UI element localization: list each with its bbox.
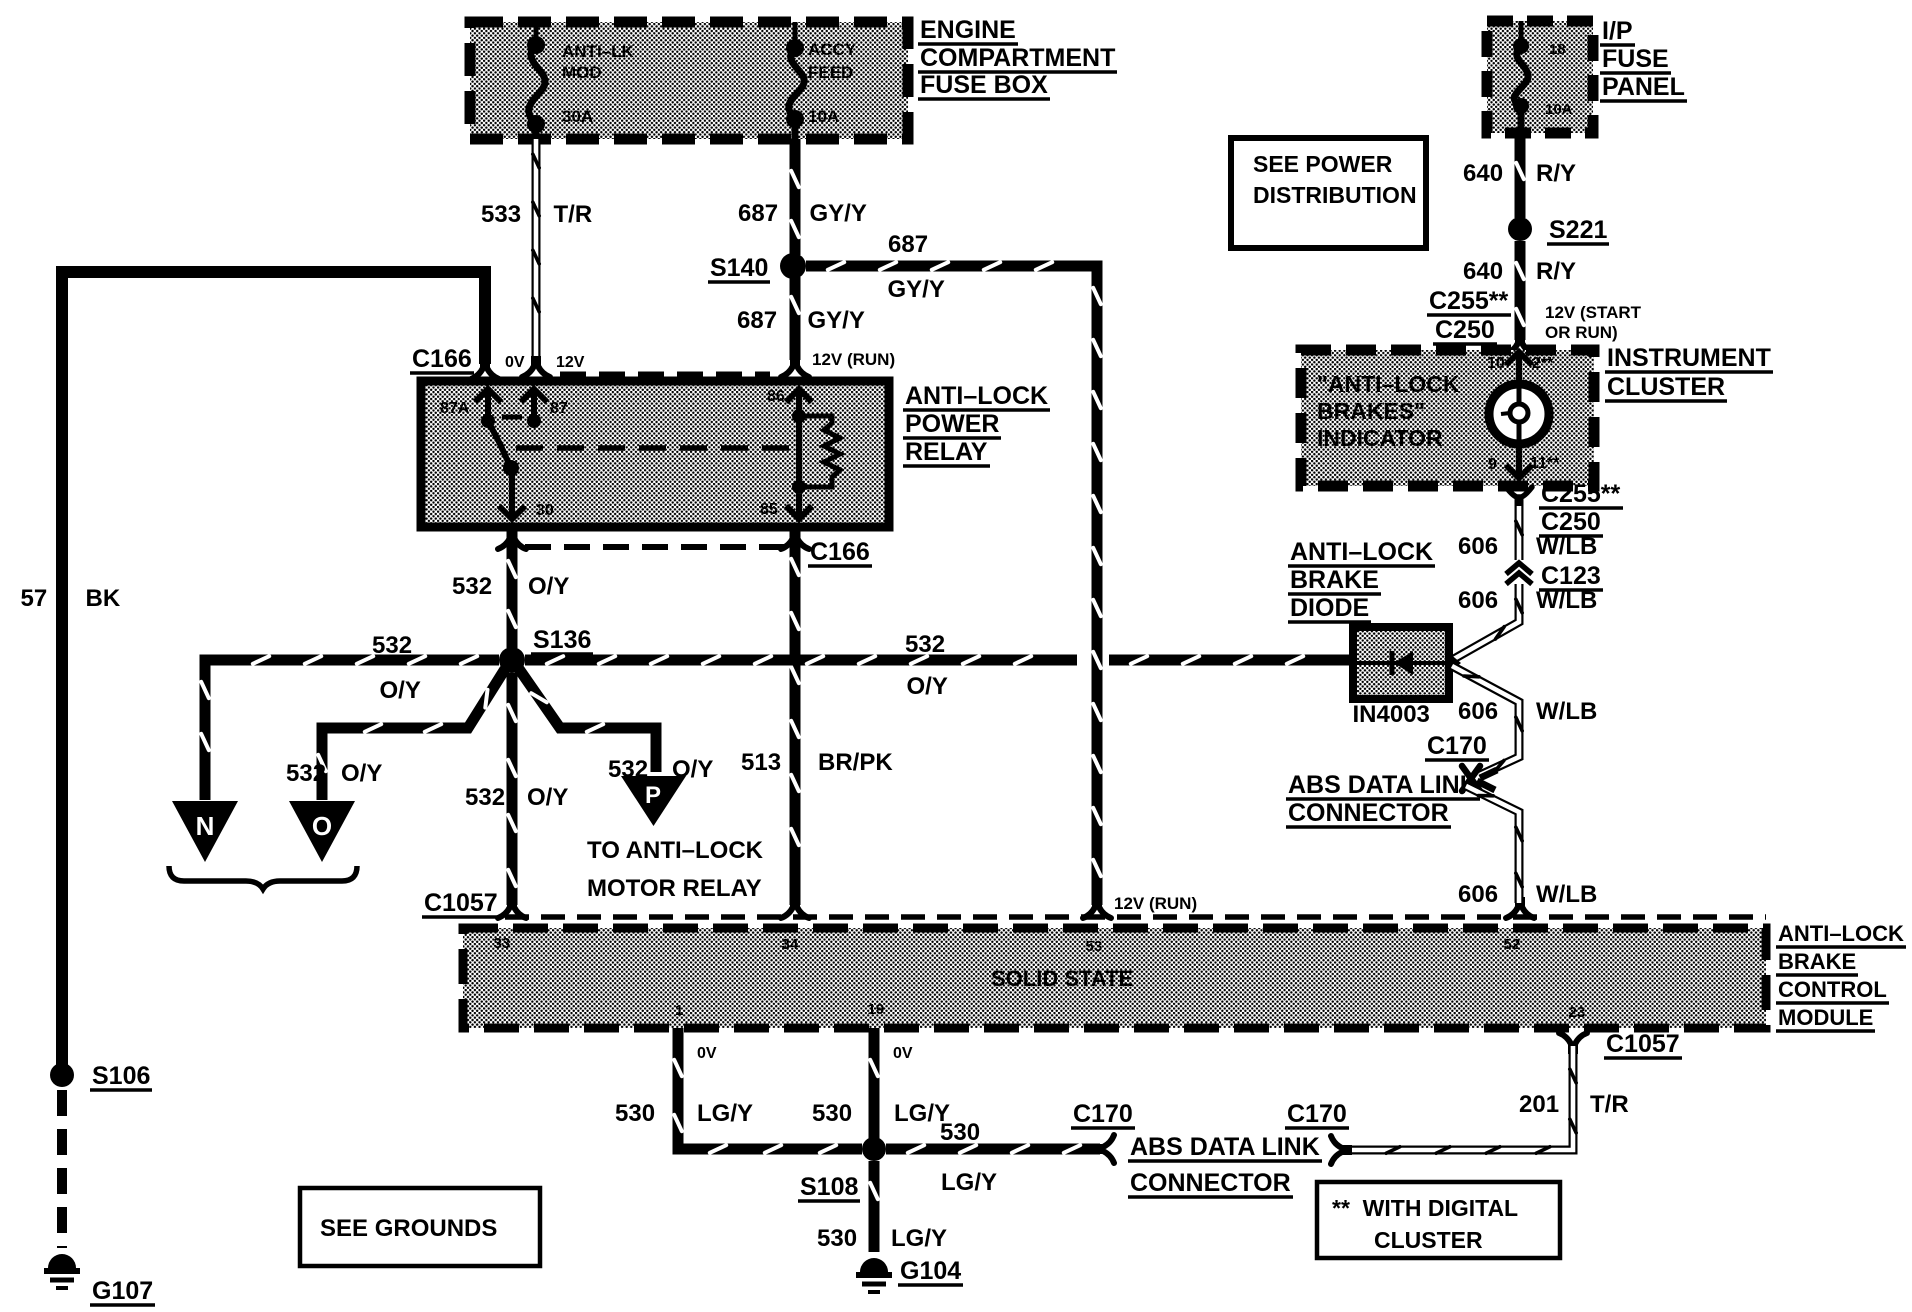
label C250 above cluster <box>1433 316 1497 344</box>
label C170 (data link) <box>1425 732 1489 760</box>
svg-text:606: 606 <box>1458 587 1498 614</box>
cluster label 9 <box>1488 456 1497 473</box>
connector C170 (201 wire end) <box>1331 1136 1349 1164</box>
fuse ANTI-LK MOD 30A <box>527 22 545 139</box>
svg-text:S106: S106 <box>92 1062 150 1090</box>
wire 606 W/LB (cluster to C123) <box>1516 506 1522 560</box>
svg-text:CONNECTOR: CONNECTOR <box>1130 1169 1291 1197</box>
cluster label 2** <box>1532 355 1554 372</box>
svg-text:12V (START: 12V (START <box>1545 303 1642 322</box>
svg-text:52: 52 <box>1504 936 1521 953</box>
connector C166 pin 30 <box>498 531 526 549</box>
svg-text:ANTI–LK: ANTI–LK <box>562 42 635 61</box>
svg-text:10: 10 <box>1487 355 1505 372</box>
wire 513 BR/PK <box>791 527 799 905</box>
title I/P <box>1600 17 1635 45</box>
cluster pin 9/11** arrow <box>1506 443 1532 478</box>
label C166 bottom <box>808 538 872 566</box>
svg-text:LG/Y: LG/Y <box>697 1100 753 1127</box>
label 201 <box>1519 1091 1559 1118</box>
connector C255**/C250 below cluster <box>1506 487 1532 506</box>
relay NC dash <box>502 415 522 420</box>
title PANEL <box>1600 73 1687 101</box>
svg-text:606: 606 <box>1458 533 1498 560</box>
label C170 (S108) <box>1071 1100 1135 1128</box>
svg-text:PANEL: PANEL <box>1602 73 1685 101</box>
title BRAKE (module) <box>1776 949 1858 975</box>
title COMPARTMENT <box>918 44 1117 72</box>
svg-text:MODULE: MODULE <box>1778 1005 1873 1030</box>
wire 201 T/R <box>1345 1046 1576 1153</box>
svg-text:86: 86 <box>767 388 785 405</box>
svg-text:S221: S221 <box>1549 216 1607 244</box>
svg-text:687: 687 <box>738 200 778 227</box>
svg-text:CONNECTOR: CONNECTOR <box>1288 799 1449 827</box>
title FUSE BOX <box>918 71 1050 99</box>
cluster label 11** <box>1530 455 1560 472</box>
label 687 branch <box>888 231 928 258</box>
svg-text:O/Y: O/Y <box>527 784 568 811</box>
label 530 (pin1) <box>615 1100 655 1127</box>
svg-text:687: 687 <box>888 231 928 258</box>
label ANTI-LK <box>562 42 635 61</box>
label 10A <box>808 107 839 126</box>
svg-text:10A: 10A <box>1545 101 1573 118</box>
wire 606 W/LB (C170 to module pin 52) <box>1466 786 1522 903</box>
svg-text:LG/Y: LG/Y <box>941 1169 997 1196</box>
svg-text:R/Y: R/Y <box>1536 160 1576 187</box>
label W/LB #1 <box>1536 533 1597 560</box>
svg-text:2**: 2** <box>1532 355 1554 372</box>
svg-text:G104: G104 <box>900 1257 961 1285</box>
splice S108 <box>862 1137 886 1161</box>
ground G107 <box>44 1254 80 1288</box>
label T/R <box>554 201 593 228</box>
diode symbol <box>1353 651 1461 675</box>
title ANTI-LOCK (diode) <box>1288 538 1435 566</box>
label 0V (pin1) <box>697 1045 717 1062</box>
wire S106 to G107 (dashed) <box>57 1090 67 1248</box>
connector C166 pin 12V(RUN) <box>781 359 809 377</box>
svg-text:C170: C170 <box>1427 732 1487 760</box>
connector C166 pin 85 <box>781 531 809 549</box>
connector C1057 pin 34 <box>781 900 809 918</box>
svg-text:P: P <box>645 782 661 809</box>
label S140 <box>708 254 770 282</box>
with digital cluster note box <box>1317 1182 1560 1258</box>
svg-text:O/Y: O/Y <box>380 677 421 704</box>
svg-text:CLUSTER: CLUSTER <box>1607 373 1725 401</box>
wire 530 LG/Y (S108 to G104) <box>870 1161 878 1252</box>
svg-text:CLUSTER: CLUSTER <box>1374 1227 1483 1253</box>
connector C170 (S108 wire end) <box>1096 1135 1114 1163</box>
arrow N <box>172 801 238 862</box>
svg-text:TO ANTI–LOCK: TO ANTI–LOCK <box>587 837 764 864</box>
wire 532 O/Y (S136 right) <box>525 656 1077 664</box>
svg-text:G107: G107 <box>92 1277 153 1305</box>
label 530 (ground) <box>817 1225 857 1252</box>
fuse 18 10A <box>1513 21 1529 133</box>
svg-text:C1057: C1057 <box>424 889 498 917</box>
svg-text:I/P: I/P <box>1602 17 1633 45</box>
svg-text:1: 1 <box>675 1002 683 1019</box>
label C1057 left <box>422 889 500 917</box>
wire 532 O/Y (S136 down) <box>508 673 516 905</box>
svg-text:C170: C170 <box>1287 1100 1347 1128</box>
svg-text:DISTRIBUTION: DISTRIBUTION <box>1253 182 1417 208</box>
module pin 33 <box>494 935 511 952</box>
label W/LB #2 <box>1536 587 1597 614</box>
svg-text:ANTI–LOCK: ANTI–LOCK <box>1778 921 1904 946</box>
label O/Y (left) <box>380 677 421 704</box>
svg-text:12V: 12V <box>556 354 585 371</box>
svg-text:INDICATOR: INDICATOR <box>1317 425 1443 451</box>
svg-text:ACCY: ACCY <box>808 40 857 59</box>
svg-text:COMPARTMENT: COMPARTMENT <box>920 44 1115 72</box>
label BK <box>86 585 121 612</box>
svg-text:0V: 0V <box>893 1045 913 1062</box>
label LG/Y (pin19) <box>894 1100 950 1127</box>
svg-text:W/LB: W/LB <box>1536 533 1597 560</box>
connector C123 <box>1506 563 1532 584</box>
label S221 <box>1547 216 1609 244</box>
label S106 <box>90 1062 152 1090</box>
label GY/Y upper <box>810 200 867 227</box>
label C1057 right <box>1604 1030 1682 1058</box>
svg-text:GY/Y: GY/Y <box>808 307 865 334</box>
svg-text:C170: C170 <box>1073 1100 1133 1128</box>
arrow P <box>621 776 686 826</box>
label 530 (S108 right) <box>940 1119 980 1146</box>
wire 687 GY/Y (S140 to relay) <box>791 277 799 360</box>
label 30A <box>562 107 593 126</box>
svg-text:30A: 30A <box>562 107 593 126</box>
svg-text:S136: S136 <box>533 626 591 654</box>
relay pin 87 arrow <box>521 389 547 421</box>
label 532 (relay-S136) <box>452 573 492 600</box>
svg-text:C123: C123 <box>1541 562 1601 590</box>
svg-text:BK: BK <box>86 585 121 612</box>
wire 530 LG/Y (pin 1) <box>674 1028 862 1153</box>
wire 606 W/LB (C123 to diode) <box>1452 584 1522 660</box>
svg-text:GY/Y: GY/Y <box>888 276 945 303</box>
svg-text:MOTOR RELAY: MOTOR RELAY <box>587 875 762 902</box>
module pin 53 <box>1086 938 1103 955</box>
svg-text:532: 532 <box>465 784 505 811</box>
svg-text:O/Y: O/Y <box>907 673 948 700</box>
svg-text:POWER: POWER <box>905 410 999 438</box>
label G104 <box>898 1257 963 1285</box>
splice S136 <box>499 647 525 673</box>
svg-text:87A: 87A <box>440 400 470 417</box>
svg-text:530: 530 <box>812 1100 852 1127</box>
svg-text:BRAKES": BRAKES" <box>1317 398 1425 424</box>
module pin 1 <box>675 1002 683 1019</box>
connector C255/C250 (above cluster) <box>1506 336 1534 354</box>
svg-text:ENGINE: ENGINE <box>920 16 1016 44</box>
label R/Y upper <box>1536 160 1576 187</box>
label R/Y lower <box>1536 258 1576 285</box>
relay contact dots <box>481 414 495 428</box>
wire 640 R/Y (fuse panel to S221) <box>1516 133 1524 218</box>
svg-text:W/LB: W/LB <box>1536 881 1597 908</box>
splice S140 <box>780 253 806 279</box>
label FEED <box>808 63 853 82</box>
svg-text:57: 57 <box>21 585 48 612</box>
wire 687 GY/Y (fuse to S140) <box>791 139 799 255</box>
svg-text:W/LB: W/LB <box>1536 698 1597 725</box>
label ANTI-LOCK (cluster) <box>1317 371 1460 397</box>
label DISTRIBUTION <box>1253 182 1417 208</box>
wire 532 O/Y (S136 to P) <box>519 669 656 772</box>
cluster pin 10/2** arrow <box>1506 352 1532 385</box>
svg-text:687: 687 <box>737 307 777 334</box>
relay coil <box>792 409 840 494</box>
label O/Y (relay-S136) <box>528 573 569 600</box>
connector C170 (data link) <box>1462 766 1497 791</box>
svg-text:INSTRUMENT: INSTRUMENT <box>1607 344 1771 372</box>
relay label 87A <box>440 400 470 417</box>
svg-text:ABS DATA LINK: ABS DATA LINK <box>1288 771 1478 799</box>
svg-text:IN4003: IN4003 <box>1353 701 1430 728</box>
label 0V <box>505 354 525 371</box>
label 12V (RUN) module <box>1114 894 1197 913</box>
connector line C166 (bottom, dashed) <box>525 544 790 550</box>
label CONNECTOR (bottom) <box>1128 1169 1293 1197</box>
splice S106 <box>50 1063 74 1087</box>
svg-text:53: 53 <box>1086 938 1103 955</box>
svg-text:533: 533 <box>481 201 521 228</box>
splice S221 <box>1508 217 1532 241</box>
wire 532 O/Y (right cont.) <box>1109 656 1353 664</box>
title POWER (relay) <box>903 410 1001 438</box>
label T/R (201) <box>1590 1091 1629 1118</box>
svg-text:SOLID STATE: SOLID STATE <box>991 966 1133 991</box>
label MOTOR RELAY <box>587 875 762 902</box>
label 606 #1 <box>1458 533 1498 560</box>
svg-text:O: O <box>312 811 332 841</box>
svg-text:** WITH DIGITAL: ** WITH DIGITAL <box>1332 1195 1518 1221</box>
label GY/Y lower <box>808 307 865 334</box>
title BRAKE (diode) <box>1288 566 1381 594</box>
connector C1057 pin 52 <box>1506 900 1534 918</box>
svg-text:ANTI–LOCK: ANTI–LOCK <box>1290 538 1433 566</box>
wire 530 LG/Y (S108 to C170) <box>886 1145 1100 1153</box>
label ACCY <box>808 40 857 59</box>
svg-text:FUSE BOX: FUSE BOX <box>920 71 1048 99</box>
svg-text:C1057: C1057 <box>1606 1030 1680 1058</box>
label ** WITH DIGITAL <box>1332 1195 1518 1221</box>
label 606 #2 <box>1458 587 1498 614</box>
label OR RUN <box>1545 323 1618 342</box>
label 532 (left) <box>372 632 412 659</box>
label LG/Y (ground) <box>891 1225 947 1252</box>
svg-text:201: 201 <box>1519 1091 1559 1118</box>
title ANTI-LOCK (module) <box>1776 921 1906 947</box>
svg-text:11**: 11** <box>1530 455 1560 472</box>
svg-text:DIODE: DIODE <box>1290 594 1369 622</box>
svg-text:87: 87 <box>550 400 568 417</box>
svg-text:O/Y: O/Y <box>341 760 382 787</box>
label 12V <box>556 354 585 371</box>
svg-text:532: 532 <box>372 632 412 659</box>
label MOD <box>562 63 602 82</box>
label BR/PK <box>818 749 893 776</box>
label SEE GROUNDS <box>320 1215 497 1242</box>
svg-text:MOD: MOD <box>562 63 602 82</box>
svg-text:S140: S140 <box>710 254 768 282</box>
module pin 23 <box>1569 1004 1586 1021</box>
relay label 30 <box>536 502 554 519</box>
connector C166 pin 0V <box>471 361 499 379</box>
svg-text:23: 23 <box>1569 1004 1586 1021</box>
svg-text:532: 532 <box>286 760 326 787</box>
svg-text:GY/Y: GY/Y <box>810 200 867 227</box>
svg-text:640: 640 <box>1463 160 1503 187</box>
label 687 upper <box>738 200 778 227</box>
label 12V (RUN) relay <box>812 350 895 369</box>
svg-text:12V (RUN): 12V (RUN) <box>1114 894 1197 913</box>
label 532 (O) <box>286 760 326 787</box>
relay label 87 <box>550 400 568 417</box>
indicator lamp <box>1489 384 1549 444</box>
label 640 upper <box>1463 160 1503 187</box>
module pin 19 <box>868 1001 885 1018</box>
svg-text:RELAY: RELAY <box>905 438 988 466</box>
svg-text:BRAKE: BRAKE <box>1778 949 1856 974</box>
wire 530 LG/Y (pin 19) <box>870 1028 878 1140</box>
svg-text:T/R: T/R <box>1590 1091 1629 1118</box>
connector C1057 pin 53 <box>1083 900 1111 918</box>
relay pin 30 arrow <box>499 468 525 519</box>
svg-text:C166: C166 <box>412 345 472 373</box>
label S108 <box>798 1173 860 1201</box>
svg-text:530: 530 <box>615 1100 655 1127</box>
svg-text:18: 18 <box>1549 41 1566 58</box>
svg-text:SEE POWER: SEE POWER <box>1253 151 1393 177</box>
label 606 #3 <box>1458 698 1498 725</box>
svg-text:N: N <box>196 811 215 841</box>
svg-text:34: 34 <box>782 936 799 953</box>
title CONTROL (module) <box>1776 977 1889 1003</box>
wire 640 R/Y (S221 to cluster) <box>1516 241 1524 340</box>
arrow O <box>289 801 355 862</box>
label 640 lower <box>1463 258 1503 285</box>
label C123 <box>1539 562 1603 590</box>
relay dashed link <box>516 445 792 451</box>
diode IN4003 box <box>1353 627 1449 699</box>
label C170 (201) <box>1285 1100 1349 1128</box>
see power distribution box <box>1231 138 1426 248</box>
label LG/Y (pin1) <box>697 1100 753 1127</box>
svg-text:C255**: C255** <box>1541 480 1620 508</box>
label ABS DATA LINK (bottom) <box>1128 1133 1322 1161</box>
label G107 <box>90 1277 155 1305</box>
svg-text:BR/PK: BR/PK <box>818 749 893 776</box>
svg-text:513: 513 <box>741 749 781 776</box>
label 532 (P) <box>608 756 648 783</box>
connector C1057 pin 23 <box>1559 1033 1587 1051</box>
svg-text:10A: 10A <box>808 107 839 126</box>
label 12V START <box>1545 303 1642 322</box>
connector line C166 (top, dashed) <box>560 372 770 377</box>
wire 687 GY/Y (S140 to module pin 53) <box>806 262 1101 905</box>
label 687 lower <box>737 307 777 334</box>
svg-text:C255**: C255** <box>1429 287 1508 315</box>
anti-lock brake control module box <box>463 928 1766 1028</box>
label O/Y (right) <box>907 673 948 700</box>
relay label 86 <box>767 388 785 405</box>
title CLUSTER <box>1605 373 1727 401</box>
svg-text:FUSE: FUSE <box>1602 45 1669 73</box>
label O/Y (O) <box>341 760 382 787</box>
label TO ANTI-LOCK <box>587 837 764 864</box>
label 0V (pin19) <box>893 1045 913 1062</box>
relay pin 85 arrow <box>786 494 812 519</box>
svg-text:9: 9 <box>1488 456 1497 473</box>
label CLUSTER <box>1374 1227 1483 1253</box>
label C250 below cluster <box>1539 508 1603 536</box>
wire 533 T/R <box>533 139 539 362</box>
svg-text:19: 19 <box>868 1001 885 1018</box>
svg-text:LG/Y: LG/Y <box>891 1225 947 1252</box>
wire 57 BK <box>62 272 485 1068</box>
label O/Y (down) <box>527 784 568 811</box>
svg-text:ABS DATA LINK: ABS DATA LINK <box>1130 1133 1320 1161</box>
wire 606 W/LB (diode to C170) <box>1452 666 1522 775</box>
engine compartment fuse box <box>470 22 908 139</box>
svg-text:C250: C250 <box>1541 508 1601 536</box>
connector C166 pin 12V <box>522 359 550 377</box>
label S136 <box>531 626 593 654</box>
svg-text:33: 33 <box>494 935 511 952</box>
brace under N and O <box>169 866 357 889</box>
svg-text:C166: C166 <box>810 538 870 566</box>
label SEE POWER <box>1253 151 1393 177</box>
svg-text:530: 530 <box>940 1119 980 1146</box>
svg-text:CONTROL: CONTROL <box>1778 977 1887 1002</box>
label C255** above cluster <box>1427 287 1511 315</box>
label CONNECTOR (data link) <box>1286 799 1451 827</box>
label fuse 18 <box>1549 41 1566 58</box>
wire 532 O/Y (S136 left) <box>201 656 499 800</box>
svg-text:606: 606 <box>1458 881 1498 908</box>
svg-text:85: 85 <box>760 501 778 518</box>
svg-text:W/LB: W/LB <box>1536 587 1597 614</box>
connector C1057 pin 33 <box>498 900 526 918</box>
svg-text:12V (RUN): 12V (RUN) <box>812 350 895 369</box>
connector line C1057 (dashed) <box>505 914 1766 920</box>
title INSTRUMENT <box>1605 344 1773 372</box>
label 530 (pin19) <box>812 1100 852 1127</box>
svg-text:OR RUN): OR RUN) <box>1545 323 1618 342</box>
relay pin 86 arrow <box>786 389 812 413</box>
label 513 <box>741 749 781 776</box>
label IN4003 <box>1353 701 1430 728</box>
label BRAKES (cluster) <box>1317 398 1425 424</box>
label SOLID STATE <box>991 966 1133 991</box>
ground G104 <box>856 1258 892 1292</box>
svg-text:0V: 0V <box>697 1045 717 1062</box>
label INDICATOR (cluster) <box>1317 425 1443 451</box>
module pin 34 <box>782 936 799 953</box>
label fuse 10A <box>1545 101 1573 118</box>
instrument cluster box <box>1301 350 1594 486</box>
title RELAY (relay) <box>903 438 990 466</box>
wire 532 O/Y (relay to S136) <box>508 527 516 648</box>
svg-text:"ANTI–LOCK: "ANTI–LOCK <box>1317 371 1460 397</box>
svg-text:C250: C250 <box>1435 316 1495 344</box>
